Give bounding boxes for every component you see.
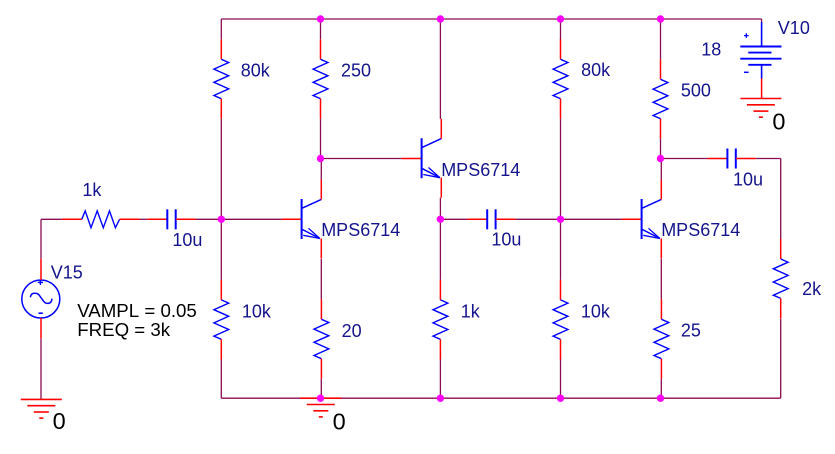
wire V10 drop from rail bbox=[761, 19, 763, 23]
svg-text:V10: V10 bbox=[778, 18, 810, 38]
capacitor 10u (input coupling) bbox=[147, 209, 202, 250]
resistor 250 (Q1 collector load) bbox=[313, 39, 371, 118]
junction bottom rail / 25 bbox=[657, 395, 664, 402]
svg-text:10u: 10u bbox=[491, 230, 521, 250]
ground (V15 source) bbox=[21, 399, 66, 434]
junction top rail / Q2 collector bbox=[437, 15, 444, 22]
wire bottom rail bbox=[221, 397, 780, 399]
resistor 2k (output load) bbox=[773, 239, 822, 318]
capacitor 10u (Q2 emitter to Q3 base coupling) bbox=[467, 209, 521, 249]
svg-text:VAMPL = 0.05: VAMPL = 0.05 bbox=[77, 300, 197, 321]
transistor Q1 MPS6714 bbox=[282, 180, 401, 259]
svg-text:1k: 1k bbox=[461, 301, 481, 321]
svg-text:500: 500 bbox=[681, 80, 711, 100]
svg-text:18: 18 bbox=[701, 40, 721, 60]
svg-text:10u: 10u bbox=[172, 230, 202, 250]
junction Q2 emitter node bbox=[437, 216, 444, 223]
wire input row: source to R 1k / C 10u / Q1 base bbox=[41, 218, 282, 220]
wire col Q1 collector/emitter (250 load, 20 emitter) bbox=[320, 19, 323, 398]
transistor Q3 MPS6714 bbox=[622, 180, 741, 259]
svg-text:MPS6714: MPS6714 bbox=[321, 220, 400, 240]
resistor 25 (Q3 emitter) bbox=[654, 299, 701, 378]
ground (mid rail) bbox=[300, 398, 345, 434]
junction bottom rail / 1k bbox=[437, 395, 444, 402]
resistor 1k (source series) bbox=[62, 180, 140, 228]
resistor 80k (Q3 bias upper) bbox=[553, 39, 611, 118]
resistor 1k (Q2 emitter) bbox=[433, 280, 481, 359]
junction bottom rail / ground bbox=[317, 395, 324, 402]
junction Q3 base node bbox=[557, 216, 564, 223]
junction top rail / 80k bbox=[557, 15, 564, 22]
resistor 80k (Q1 bias upper) bbox=[214, 39, 271, 118]
junction input node at Q1 bias bbox=[218, 216, 225, 223]
label V10 value 18 bbox=[701, 40, 721, 60]
wire output row: Q3 collector node to C3 to load bbox=[661, 159, 781, 399]
svg-text:1k: 1k bbox=[82, 180, 102, 200]
wire node1 row: Q1 collector to Q2 base bbox=[321, 158, 402, 160]
junction Q1 collector node bbox=[317, 155, 324, 162]
wire top supply rail bbox=[221, 18, 761, 20]
capacitor 10u (output coupling) bbox=[707, 149, 763, 190]
junction Q3 collector node bbox=[657, 155, 664, 162]
junction top rail / 250 bbox=[317, 15, 324, 22]
battery V10 (VDC 18) bbox=[740, 18, 810, 99]
svg-text:MPS6714: MPS6714 bbox=[441, 160, 520, 180]
ground (V10 battery) bbox=[740, 99, 785, 135]
wire Q2 emitter row to C2 and Q3 base bbox=[440, 218, 621, 220]
svg-text:0: 0 bbox=[53, 408, 66, 434]
wire col Q3-base-node (80k/10k divider) bbox=[560, 19, 562, 398]
resistor 20 (Q1 emitter) bbox=[314, 299, 362, 378]
svg-text:FREQ = 3k: FREQ = 3k bbox=[77, 319, 171, 340]
wire col Q2 (collector to rail, emitter to node) bbox=[439, 19, 441, 398]
label V15 FREQ bbox=[77, 319, 171, 340]
svg-text:0: 0 bbox=[772, 108, 785, 134]
junction top rail / 500 bbox=[657, 15, 664, 22]
svg-text:0: 0 bbox=[333, 408, 346, 434]
label V15 VAMPL bbox=[77, 300, 197, 321]
svg-text:MPS6714: MPS6714 bbox=[661, 220, 740, 240]
wire V15 vertical bbox=[40, 219, 42, 399]
svg-text:V15: V15 bbox=[51, 262, 83, 282]
resistor 10k (Q1 bias lower) bbox=[214, 280, 272, 359]
resistor 10k (Q3 bias lower) bbox=[553, 280, 611, 359]
svg-text:2k: 2k bbox=[802, 279, 822, 299]
svg-text:20: 20 bbox=[342, 321, 362, 341]
wire col Q3 collector/emitter (500 load, 25 emitter) bbox=[660, 19, 663, 398]
svg-text:10u: 10u bbox=[733, 169, 763, 189]
svg-text:10k: 10k bbox=[242, 301, 272, 321]
junction bottom rail / 10k bbox=[557, 395, 564, 402]
voltage source V15 (VSIN) bbox=[22, 259, 83, 339]
svg-text:25: 25 bbox=[681, 320, 701, 340]
transistor Q2 MPS6714 bbox=[402, 119, 521, 198]
svg-text:10k: 10k bbox=[581, 301, 611, 321]
wire col input-node vertical (80k/10k bias to Q1 base node) bbox=[220, 19, 222, 398]
svg-text:80k: 80k bbox=[241, 61, 271, 81]
svg-text:80k: 80k bbox=[581, 60, 611, 80]
svg-text:250: 250 bbox=[341, 61, 371, 81]
resistor 500 (Q3 collector load) bbox=[653, 59, 711, 138]
